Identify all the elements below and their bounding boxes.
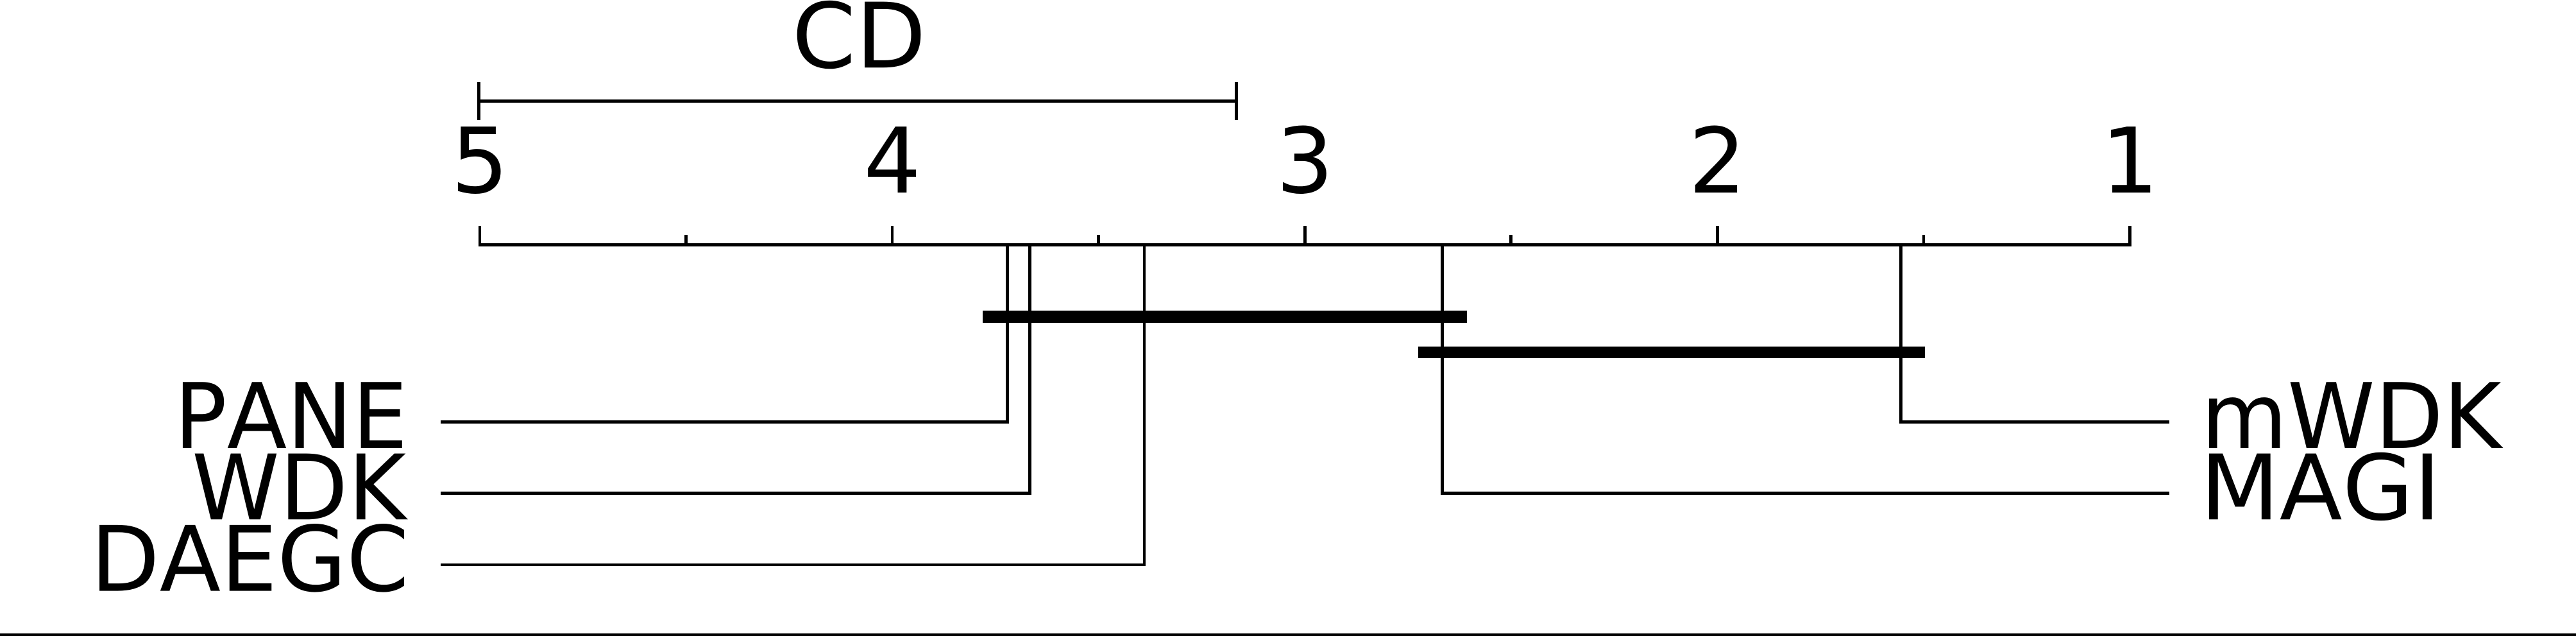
clique bar 1 (PANE WDK DAEGC MAGI) — [983, 311, 1466, 323]
text 1 — [2111, 126, 2150, 193]
minor tick 3.5 — [1097, 235, 1100, 247]
axis line — [479, 243, 2131, 246]
text DAEGC — [99, 524, 404, 592]
major tick 5 — [479, 226, 482, 247]
major tick 4 — [891, 226, 894, 247]
CD ruler right end tick — [1235, 82, 1238, 120]
connector WDK — [441, 492, 1031, 495]
CD ruler line — [478, 99, 1237, 103]
major tick 3 — [1303, 226, 1307, 247]
text 2 — [1695, 125, 1737, 193]
text MAGI — [2209, 452, 2432, 521]
minor tick 1.5 — [1922, 235, 1926, 247]
text 3 — [1283, 125, 1326, 194]
major tick 1 — [2128, 226, 2131, 247]
text mWDK — [2209, 382, 2504, 448]
CD ruler left end tick — [477, 82, 480, 120]
text CD — [797, 1, 921, 69]
drop line WDK — [1028, 244, 1031, 495]
drop line mWDK — [1899, 244, 1902, 424]
bottom border bar — [0, 633, 2576, 636]
minor tick 2.5 — [1509, 235, 1513, 247]
drop line PANE — [1006, 244, 1009, 424]
connector MAGI — [1441, 492, 2169, 495]
connector mWDK — [1899, 420, 2169, 424]
minor tick 4.5 — [684, 235, 688, 247]
drop line MAGI — [1441, 244, 1444, 495]
connector PANE — [441, 420, 1009, 424]
text 5 — [458, 126, 500, 194]
text PANE — [183, 382, 402, 448]
connector DAEGC — [441, 563, 1146, 567]
clique bar 2 (MAGI mWDK) — [1418, 347, 1926, 359]
text 4 — [868, 126, 916, 193]
major tick 2 — [1716, 226, 1719, 247]
drop line DAEGC — [1143, 244, 1146, 566]
text WDK — [195, 454, 408, 520]
